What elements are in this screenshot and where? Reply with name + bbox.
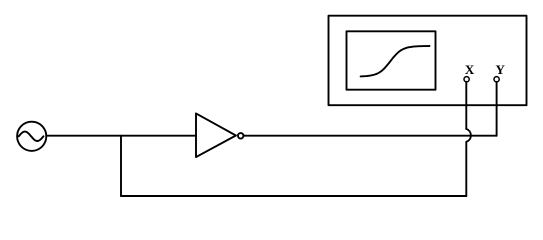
transfer curve on screen <box>361 46 430 76</box>
wire junction down from main wire <box>120 136 122 196</box>
wire hop to X terminal <box>465 82 467 129</box>
inverter output bubble <box>238 133 244 139</box>
wire feedback up to hop <box>465 142 467 196</box>
svg-text:Y: Y <box>496 62 506 77</box>
wire bottom feedback <box>121 195 466 197</box>
X terminal <box>464 77 469 82</box>
sine source V1 <box>17 122 46 151</box>
svg-text:X: X <box>465 62 475 77</box>
sine symbol inside V1 <box>19 132 44 141</box>
Y terminal <box>494 77 499 82</box>
wire hop over output wire <box>466 129 471 142</box>
oscilloscope screen <box>347 31 436 89</box>
wire source to inverter input <box>46 135 196 137</box>
wire inverter output to Y branch <box>244 135 497 137</box>
inverter U1 <box>196 113 236 157</box>
oscilloscope box <box>329 16 527 106</box>
wire up to Y terminal <box>496 82 498 136</box>
